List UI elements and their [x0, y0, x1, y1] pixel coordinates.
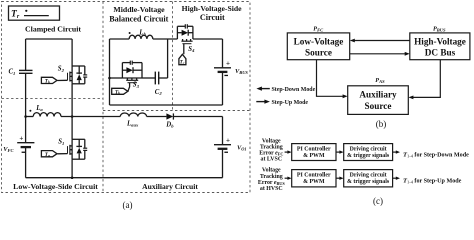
wire S2 to node A	[71, 84, 73, 140]
wire middle loop left vertical	[109, 39, 111, 105]
svg-text:Voltage: Voltage	[262, 138, 281, 144]
box driving circuit row1	[344, 144, 393, 161]
trigger Ta pentagon for S1	[41, 151, 57, 157]
svg-text:Source: Source	[305, 48, 332, 58]
svg-text:Driving circuit: Driving circuit	[350, 147, 387, 153]
wire left vertical mid	[25, 74, 27, 143]
minus VBUS	[224, 75, 228, 76]
svg-text:High-Voltage-Side: High-Voltage-Side	[182, 4, 243, 13]
svg-text:(a): (a)	[123, 200, 133, 210]
transistor S1 mosfet symbol	[69, 145, 71, 155]
wire auxiliary line	[61, 116, 120, 118]
svg-text:Low-Voltage-Side Circuit: Low-Voltage-Side Circuit	[13, 182, 98, 191]
legend arrow step-down	[260, 88, 270, 90]
svg-text:+: +	[226, 60, 230, 68]
arrows row1	[285, 151, 289, 153]
wire VBUS down	[222, 73, 224, 105]
box driving circuit row2	[344, 170, 393, 187]
mosfet S1 assembly box	[72, 138, 85, 140]
svg-text:PFC: PFC	[313, 25, 324, 32]
legend dot	[25, 10, 27, 12]
battery VBUS	[214, 67, 231, 69]
inductor Lb	[129, 35, 153, 39]
wire bottom rail	[26, 177, 223, 179]
wire gate lead S3	[128, 83, 130, 92]
diode Db	[166, 113, 173, 119]
svg-text:VBUS: VBUS	[235, 68, 248, 75]
svg-text:Source: Source	[365, 101, 392, 111]
svg-text:at LVSC: at LVSC	[261, 157, 283, 163]
svg-text:Clamped Circuit: Clamped Circuit	[25, 24, 81, 33]
capacitor C2	[154, 72, 156, 85]
arrows row2	[285, 177, 289, 179]
svg-text:High-Voltage: High-Voltage	[414, 36, 466, 46]
transistor S4 mosfet symbol	[181, 40, 192, 42]
legend arrow step-up	[256, 101, 266, 103]
svg-text:Low-Voltage: Low-Voltage	[294, 36, 344, 46]
diode antiparallel S4	[177, 32, 181, 34]
wire S4 to VBUS	[193, 38, 223, 40]
transistor S3 mosfet symbol	[126, 79, 138, 81]
box PI controller row2	[292, 170, 336, 187]
box low-voltage source	[287, 33, 349, 60]
capacitor parasitic S1	[83, 147, 87, 149]
wire S3 branch left	[110, 77, 123, 79]
svg-text:+: +	[226, 136, 230, 144]
mosfet S3 assembly box	[121, 63, 123, 78]
wire right vertical of clamped loop	[71, 39, 73, 66]
trigger Tb pentagon for S3	[112, 88, 128, 94]
text labels circuit (a)	[3, 4, 248, 210]
svg-text:Tracking: Tracking	[260, 174, 283, 180]
svg-text:PI Controller: PI Controller	[297, 173, 331, 179]
svg-text:(b): (b)	[376, 119, 387, 129]
svg-text:Voltage: Voltage	[262, 168, 281, 174]
svg-text:Auxiliary: Auxiliary	[359, 90, 397, 100]
capacitor parasitic S4	[184, 24, 186, 28]
capacitor parasitic S3	[129, 61, 131, 65]
wire LV down to AUX	[317, 60, 345, 97]
wire middle loop top	[110, 38, 130, 40]
svg-text:& trigger signals: & trigger signals	[347, 179, 390, 185]
wire gate lead S2	[57, 79, 67, 81]
trigger Tb pentagon for S2	[41, 77, 57, 83]
mosfet S2 assembly box	[72, 65, 85, 67]
svg-text:Tracking: Tracking	[260, 145, 283, 151]
svg-text:T1-4 for Step-Up Mode: T1-4 for Step-Up Mode	[403, 177, 462, 184]
wire VO1 down to bottom rail	[222, 150, 224, 178]
svg-text:PI Controller: PI Controller	[297, 147, 331, 153]
wire left vertical upper	[25, 39, 27, 70]
inductor La	[26, 116, 34, 118]
svg-text:DC Bus: DC Bus	[425, 48, 456, 58]
wire HV to LV arrow	[354, 40, 410, 42]
transistor S2 mosfet symbol	[69, 72, 71, 82]
block diagram (c)	[285, 144, 397, 187]
box high-voltage dc bus	[410, 33, 470, 60]
box auxiliary source	[348, 86, 409, 115]
svg-text:Step-Up Mode: Step-Up Mode	[272, 100, 309, 106]
capacitor parasitic S2	[83, 74, 87, 76]
wire S3 to C2	[142, 77, 155, 79]
wire HV down to AUX	[412, 60, 441, 98]
dashed box clamped/low-voltage outer border	[2, 2, 251, 193]
inductor Laux	[120, 113, 146, 116]
node A junction dots	[24, 115, 27, 118]
node junction S3 branch	[108, 77, 111, 80]
wire gate lead S1	[57, 153, 67, 155]
svg-text:Step-Down Mode: Step-Down Mode	[272, 87, 316, 93]
trigger Tc pentagon for S4	[179, 54, 186, 64]
wire C2 to top	[159, 77, 168, 79]
capacitor C1	[19, 69, 33, 71]
svg-text:VO1: VO1	[237, 144, 247, 151]
minus VO1	[224, 152, 228, 153]
minus VFC	[22, 152, 26, 153]
diode antiparallel S3	[122, 69, 126, 71]
svg-text:PBUS: PBUS	[433, 25, 446, 32]
svg-text:PAS: PAS	[375, 77, 385, 84]
svg-text:& PWM: & PWM	[303, 153, 325, 159]
svg-text:+: +	[19, 135, 23, 143]
svg-text:& trigger signals: & trigger signals	[347, 153, 390, 159]
wire left-top loop	[26, 38, 73, 40]
legend box Tr	[9, 6, 60, 20]
battery VO1	[214, 144, 231, 146]
svg-text:Circuit: Circuit	[200, 13, 225, 22]
wire left vertical lower	[25, 148, 27, 178]
svg-text:at HVSC: at HVSC	[260, 186, 283, 192]
block diagram (b)	[256, 33, 470, 115]
svg-text:(c): (c)	[373, 196, 383, 206]
wire gate lead S4	[183, 44, 185, 55]
wire LV to HV arrow	[350, 53, 407, 55]
svg-text:& PWM: & PWM	[303, 179, 325, 185]
svg-text:Driving circuit: Driving circuit	[350, 173, 387, 179]
svg-text:Middle-Voltage: Middle-Voltage	[113, 5, 165, 14]
svg-text:Auxiliary Circuit: Auxiliary Circuit	[142, 182, 198, 191]
box PI controller row1	[292, 144, 336, 161]
diode antiparallel S1	[78, 139, 80, 147]
wire middle loop bottom	[110, 104, 223, 106]
wire S1 to bottom rail	[71, 159, 73, 178]
svg-text:Balanced Circuit: Balanced Circuit	[109, 14, 168, 23]
battery VFC	[17, 142, 34, 144]
legend line	[24, 15, 49, 17]
diode antiparallel S2	[78, 66, 80, 74]
wire aux right vertical	[222, 117, 224, 145]
svg-text:T1-4 for Step-Down Mode: T1-4 for Step-Down Mode	[403, 151, 469, 158]
mosfet S4 assembly box	[176, 26, 178, 39]
